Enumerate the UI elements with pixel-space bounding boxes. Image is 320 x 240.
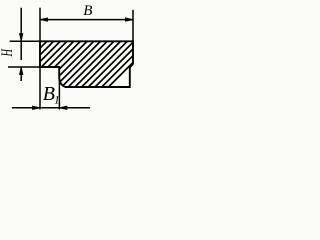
svg-text:B: B: [83, 3, 92, 19]
svg-text:H: H: [0, 48, 16, 57]
